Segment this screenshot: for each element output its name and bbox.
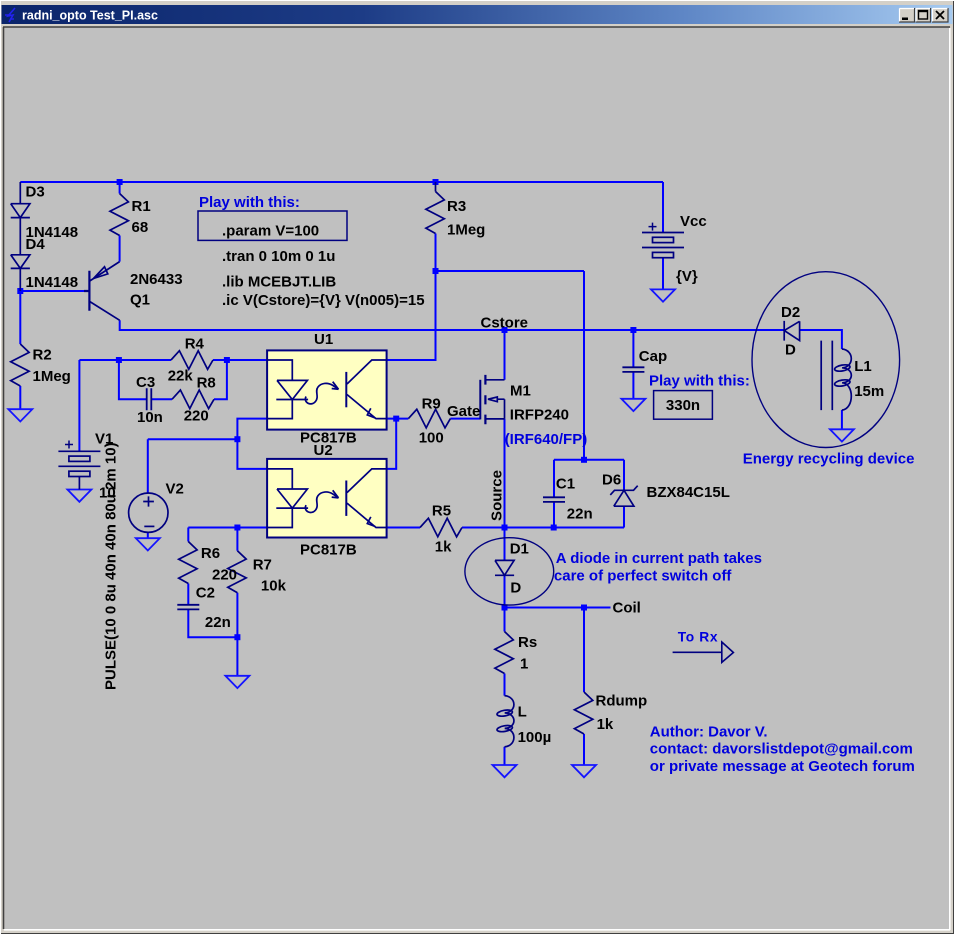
- capacitor C1: [543, 497, 565, 502]
- wire top supply rail: [20, 181, 663, 183]
- svg-text:Cstore: Cstore: [481, 314, 529, 331]
- svg-text:A diode in current path takes: A diode in current path takes: [556, 550, 762, 567]
- wire R1 top lead: [119, 182, 121, 194]
- wire V1 to R4/C3 node to U1 anode: [79, 359, 267, 361]
- resistor R1: [110, 194, 128, 236]
- voltage source V2: [129, 493, 168, 532]
- svg-text:R7: R7: [253, 556, 272, 573]
- ground under L1: [830, 429, 854, 441]
- diode D1: [495, 560, 514, 575]
- box .param: [198, 211, 347, 240]
- wire M1 drain: [504, 330, 506, 380]
- svg-text:IRFP240: IRFP240: [510, 407, 569, 424]
- close button: [932, 8, 948, 22]
- node junction R3 bottom: [433, 268, 439, 274]
- resistor Rdump: [574, 692, 592, 734]
- svg-text:radni_opto Test_PI.asc: radni_opto Test_PI.asc: [22, 9, 158, 23]
- svg-text:R4: R4: [185, 335, 205, 352]
- svg-text:Coil: Coil: [613, 600, 641, 617]
- node junction Cstore / M1 drain: [502, 327, 508, 333]
- svg-text:D1: D1: [510, 540, 529, 557]
- node junction D1 / Rs / Coil: [502, 605, 508, 611]
- svg-text:.param V=100: .param V=100: [222, 222, 319, 239]
- svg-text:220: 220: [184, 407, 209, 424]
- capacitor C2: [177, 605, 199, 610]
- node junction R4 / R8 / U1 anode: [224, 357, 230, 363]
- wire R5 to M1 source node: [462, 527, 505, 529]
- wire Cap leads: [632, 330, 634, 399]
- wire C1/D6 top row: [554, 459, 624, 461]
- transistor M1 MOSFET: [480, 375, 504, 424]
- svg-text:BZX84C15L: BZX84C15L: [647, 484, 730, 501]
- wire U2 emitter to R5: [387, 527, 420, 529]
- svg-text:{V}: {V}: [676, 268, 698, 285]
- svg-text:10k: 10k: [261, 578, 287, 595]
- ground under V2: [136, 538, 160, 550]
- wire node R3 to C1/D6 column: [436, 271, 585, 460]
- svg-text:1N4148: 1N4148: [26, 274, 79, 291]
- svg-text:1k: 1k: [597, 716, 614, 733]
- svg-text:R1: R1: [132, 198, 151, 215]
- wire M1 source: [504, 419, 506, 528]
- inductor L1: [834, 349, 851, 410]
- svg-text:U2: U2: [314, 442, 333, 459]
- wire D6 leads: [623, 460, 625, 528]
- svg-text:22n: 22n: [205, 614, 231, 631]
- wire R7 leads: [236, 528, 238, 676]
- svg-text:or private message at Geotech: or private message at Geotech forum: [650, 758, 915, 775]
- wire D1 leads: [504, 528, 506, 608]
- wire L1 bottom: [841, 410, 843, 429]
- wire source bottom row: [505, 527, 625, 529]
- wire V2 bottom: [147, 532, 149, 538]
- svg-text:C2: C2: [196, 585, 215, 602]
- svg-text:R6: R6: [201, 545, 220, 562]
- svg-text:PC817B: PC817B: [300, 541, 357, 558]
- wire C1 leads: [553, 460, 555, 528]
- svg-text:L1: L1: [854, 358, 872, 375]
- wire U1 cathode to U2 anode: [237, 419, 267, 469]
- resistor R9: [408, 409, 450, 428]
- node junction C1-D6 top: [581, 457, 587, 463]
- resistor R3: [426, 182, 444, 234]
- svg-text:D6: D6: [602, 471, 621, 488]
- zener diode D6: [610, 486, 637, 507]
- svg-text:Q1: Q1: [130, 291, 150, 308]
- svg-text:R5: R5: [432, 502, 451, 519]
- wire V1 top: [78, 360, 80, 451]
- svg-text:Rdump: Rdump: [596, 692, 648, 709]
- svg-text:100µ: 100µ: [518, 729, 552, 746]
- node junction M1 source / R5 / D1: [502, 525, 508, 531]
- wire R3 bottom: [435, 234, 437, 272]
- svg-text:C3: C3: [136, 374, 155, 391]
- svg-text:1Meg: 1Meg: [33, 368, 71, 385]
- svg-text:68: 68: [132, 219, 149, 236]
- svg-text:Energy recycling device: Energy recycling device: [743, 450, 915, 467]
- diode D4: [11, 218, 30, 291]
- capacitor C3: [147, 388, 152, 410]
- wire R2 top: [19, 291, 21, 344]
- ellipse around D1: [465, 538, 554, 605]
- node junction C1 bottom: [551, 525, 557, 531]
- svg-text:Source: Source: [488, 470, 505, 521]
- wire D2 anode to L1: [800, 330, 842, 349]
- svg-text:Gate: Gate: [447, 403, 480, 420]
- node junction top rail / R1: [117, 179, 123, 185]
- svg-text:Play with this:: Play with this:: [199, 194, 300, 211]
- svg-text:15m: 15m: [854, 383, 884, 400]
- svg-text:1: 1: [520, 655, 528, 672]
- node junction C2 / R7 ground: [234, 634, 240, 640]
- svg-text:V2: V2: [166, 480, 184, 497]
- resistor R6: [179, 542, 197, 584]
- box 330n: [654, 391, 713, 420]
- svg-text:U1: U1: [314, 331, 333, 348]
- wire R9 to M1 gate: [450, 418, 480, 420]
- svg-text:Vcc: Vcc: [680, 213, 707, 230]
- svg-text:Rs: Rs: [518, 634, 537, 651]
- wire Vcc leads: [662, 182, 664, 289]
- optocoupler U1: [267, 350, 387, 429]
- window icon: [5, 8, 15, 22]
- transformer core: [821, 341, 832, 411]
- ground under Vcc: [651, 289, 675, 301]
- svg-text:D4: D4: [26, 236, 46, 253]
- arrow To Rx: [673, 642, 734, 662]
- svg-text:Play with this:: Play with this:: [649, 373, 750, 390]
- svg-text:220: 220: [212, 566, 237, 583]
- ground under Rdump: [572, 765, 596, 777]
- svg-text:Author: Davor V.: Author: Davor V.: [650, 724, 768, 741]
- node junction R9 / U1 emitter / U2 collector: [393, 416, 399, 422]
- wire U1 emitter to R9: [387, 418, 409, 420]
- svg-text:care of perfect switch off: care of perfect switch off: [554, 567, 733, 584]
- svg-text:M1: M1: [510, 383, 531, 400]
- transistor Q1: [84, 262, 120, 321]
- svg-text:22k: 22k: [168, 367, 194, 384]
- svg-text:Cap: Cap: [639, 348, 667, 365]
- svg-text:.tran 0 10m 0 1u: .tran 0 10m 0 1u: [222, 248, 335, 265]
- svg-text:100: 100: [419, 429, 444, 446]
- wire U2 collector: [387, 419, 397, 469]
- svg-text:R9: R9: [422, 395, 441, 412]
- wire U1 collector to R3 node: [387, 271, 436, 360]
- optocoupler U2: [267, 459, 387, 538]
- svg-text:R2: R2: [33, 346, 52, 363]
- svg-text:D3: D3: [26, 183, 45, 200]
- wire V2 top: [148, 439, 238, 493]
- ground under V1: [67, 490, 91, 502]
- wire R2 bottom: [19, 386, 21, 409]
- wire Rdump leads: [583, 608, 585, 766]
- svg-text:D: D: [510, 579, 521, 596]
- wire Rs leads: [504, 608, 506, 696]
- svg-text:D2: D2: [781, 304, 800, 321]
- voltage source Vcc battery: [642, 223, 684, 258]
- capacitor Cap: [622, 367, 644, 372]
- svg-text:10n: 10n: [137, 409, 163, 426]
- wire C2 bottom: [188, 609, 237, 637]
- svg-text:.ic V(Cstore)={V} V(n005)=15: .ic V(Cstore)={V} V(n005)=15: [222, 292, 425, 309]
- ground under C2/R7: [225, 676, 249, 688]
- ground under R2: [8, 409, 32, 421]
- svg-text:C1: C1: [556, 475, 575, 492]
- svg-text:1Meg: 1Meg: [447, 221, 485, 238]
- resistor Rs: [495, 632, 513, 674]
- node junction D4 / Q1 base / R2: [17, 288, 23, 294]
- node junction Coil / Rdump: [581, 605, 587, 611]
- ground under Cap: [621, 399, 645, 411]
- wire L bottom: [504, 747, 506, 765]
- svg-text:R8: R8: [197, 374, 216, 391]
- minimize button: [899, 8, 915, 22]
- svg-text:L: L: [518, 703, 527, 720]
- wire Coil row: [505, 607, 611, 609]
- title bar: [2, 5, 953, 24]
- resistor R7: [228, 551, 246, 593]
- svg-text:.lib MCEBJT.LIB: .lib MCEBJT.LIB: [222, 274, 336, 291]
- resistor R5: [420, 518, 462, 537]
- node junction V1 / R4 / C3: [116, 357, 122, 363]
- diode D2: [784, 321, 799, 341]
- wire R6 leads: [187, 528, 189, 605]
- voltage source V1 battery: [58, 441, 100, 490]
- node junction top rail / R3: [433, 179, 439, 185]
- svg-text:R3: R3: [447, 198, 466, 215]
- svg-text:2N6433: 2N6433: [130, 271, 183, 288]
- svg-text:22n: 22n: [567, 505, 593, 522]
- resistor R8: [172, 390, 214, 409]
- wire C3/R8 branch: [119, 360, 227, 399]
- wire Cstore rail from Q1 collector: [120, 320, 785, 330]
- inductor L: [497, 696, 514, 747]
- svg-text:(IRF640/FP): (IRF640/FP): [505, 431, 588, 448]
- svg-text:1k: 1k: [435, 538, 452, 555]
- resistor R4: [171, 351, 213, 370]
- maximize button: [916, 8, 931, 22]
- ellipse energy recycling device: [752, 272, 900, 448]
- ground under L: [493, 765, 517, 777]
- node junction V2 / opto chain: [234, 436, 240, 442]
- wire Q1 base: [20, 290, 84, 292]
- diode D3: [11, 182, 30, 218]
- svg-text:To Rx: To Rx: [678, 630, 718, 645]
- resistor R2: [11, 344, 29, 386]
- node junction Cstore / Cap: [630, 327, 636, 333]
- svg-text:PULSE(10 0 8u 40n 40n 80u 2m 1: PULSE(10 0 8u 40n 40n 80u 2m 10): [103, 442, 120, 690]
- wire R1 bottom to Q1 emitter: [119, 236, 121, 262]
- svg-text:D: D: [785, 341, 796, 358]
- svg-text:330n: 330n: [666, 397, 700, 414]
- svg-text:contact: davorslistdepot@gmail: contact: davorslistdepot@gmail.com: [650, 740, 913, 757]
- node junction U2 cathode / R6 / R7: [234, 525, 240, 531]
- wire U2 cathode to R6/R7: [188, 527, 267, 529]
